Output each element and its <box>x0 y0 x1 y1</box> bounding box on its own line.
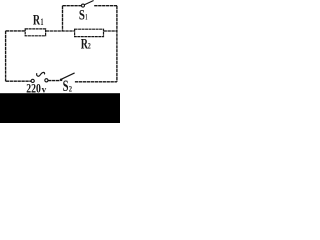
AC source 220V (two terminals with sine squiggle) <box>26 72 48 95</box>
svg-text:2: 2 <box>69 83 73 93</box>
wire top-right segment (S1 to right rail) <box>94 5 117 7</box>
svg-text:2: 2 <box>88 41 91 51</box>
switch S1 <box>79 1 94 24</box>
svg-text:1: 1 <box>41 17 44 27</box>
wire middle vertical (node A down to R1-R2 line) <box>62 6 64 31</box>
wire bottom-left (to source terminal) <box>6 80 32 82</box>
svg-text:S: S <box>63 77 69 95</box>
wire between R1 and R2 <box>46 30 75 32</box>
resistor R1 <box>25 13 45 36</box>
switch S2 <box>60 73 75 95</box>
wire bottom-right (S2 to right rail) <box>75 81 117 83</box>
wire top-left segment (node A to S1) <box>63 5 82 7</box>
svg-text:R: R <box>33 13 40 29</box>
wire right vertical rail <box>116 6 118 82</box>
svg-text:S: S <box>79 7 85 23</box>
resistor R2 <box>75 29 104 52</box>
wire R1 branch left lead <box>6 30 26 32</box>
wire R2 right lead <box>104 30 117 32</box>
wire left vertical rail <box>5 31 7 81</box>
wire source to S2 <box>48 80 60 82</box>
svg-text:1: 1 <box>85 12 87 22</box>
